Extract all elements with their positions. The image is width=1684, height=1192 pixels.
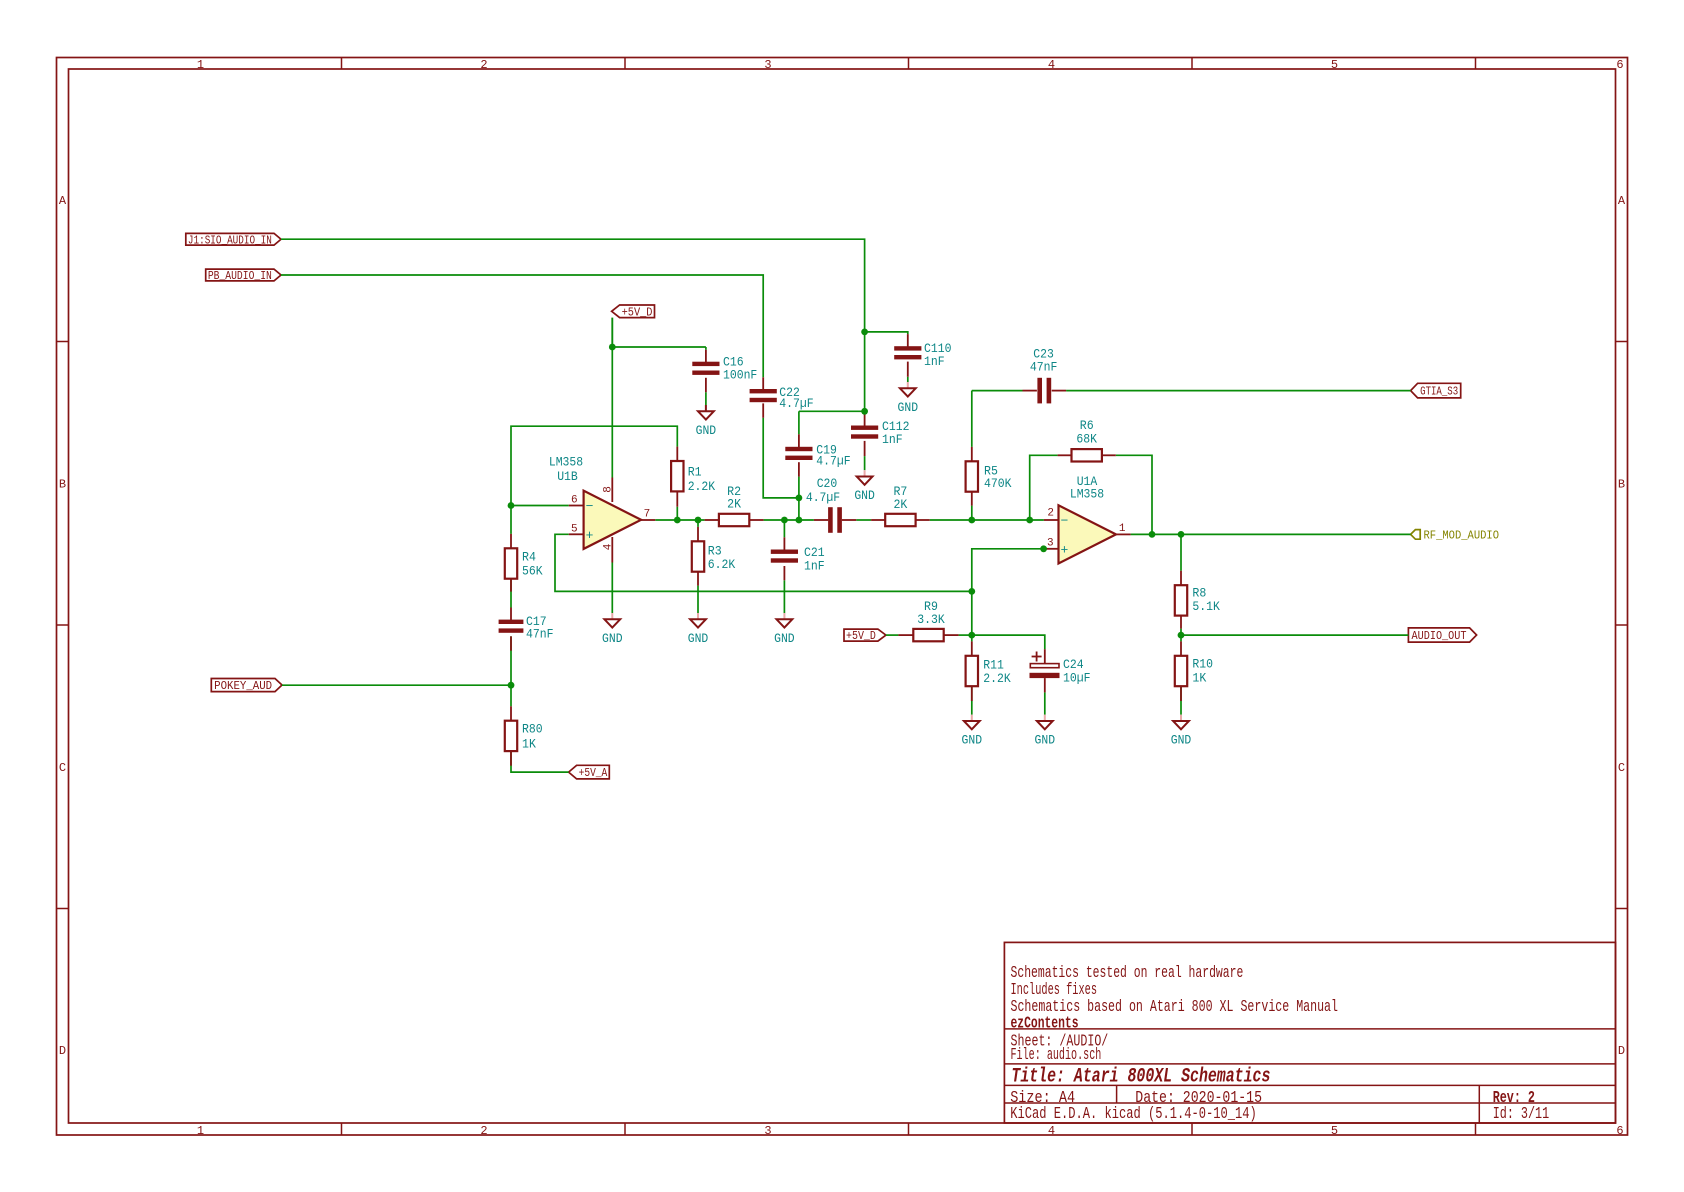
junction U1A out/R8	[1178, 531, 1185, 538]
capacitor C22	[762, 377, 764, 391]
svg-text:B: B	[59, 477, 66, 491]
wire C19 vertical	[798, 411, 800, 434]
svg-text:5: 5	[1331, 58, 1338, 72]
svg-text:Includes fixes: Includes fixes	[1011, 981, 1098, 1000]
resistor R11	[971, 641, 973, 655]
svg-text:2: 2	[480, 58, 487, 72]
svg-text:GND: GND	[854, 488, 875, 503]
svg-text:1nF: 1nF	[882, 432, 903, 447]
svg-text:470K: 470K	[984, 476, 1012, 491]
svg-text:1K: 1K	[522, 736, 536, 751]
capacitor C112	[864, 414, 866, 428]
svg-text:Id: 3/11: Id: 3/11	[1493, 1105, 1550, 1124]
svg-text:2K: 2K	[893, 497, 907, 512]
svg-text:B: B	[1618, 477, 1625, 491]
svg-text:1: 1	[197, 1124, 204, 1138]
hierarchical label GTIA_S3	[1411, 383, 1461, 398]
wire C24 branch	[972, 635, 1045, 649]
wire R5 vertical	[971, 391, 973, 447]
wire U1B pin4 to GND	[611, 563, 613, 614]
ground at R10	[1180, 715, 1182, 721]
junction C19/output	[796, 517, 803, 524]
wire U1B pin6 node	[511, 505, 569, 507]
svg-text:100nF: 100nF	[723, 368, 757, 383]
svg-text:6: 6	[571, 495, 578, 507]
wire AUDIO_OUT	[1181, 634, 1408, 636]
wire C17 to POKEY node	[510, 636, 512, 706]
resistor R2	[705, 519, 719, 521]
resistor R7	[871, 519, 885, 521]
junction +5V_D/C16 node	[609, 344, 616, 351]
resistor R3	[697, 527, 699, 541]
wire +5V_D to C16 and U1B pin8	[612, 346, 706, 348]
capacitor C17	[510, 608, 512, 622]
svg-text:J1:SIO_AUDIO_IN: J1:SIO_AUDIO_IN	[188, 234, 272, 247]
svg-text:3: 3	[1047, 537, 1054, 549]
svg-text:LM358: LM358	[549, 455, 583, 470]
wire U1B output rail	[655, 519, 704, 521]
wire R11 stem	[971, 635, 973, 641]
svg-text:5.1K: 5.1K	[1192, 599, 1220, 614]
ground at U1B pin 4	[611, 613, 613, 619]
hierarchical label AUDIO_OUT	[1408, 628, 1476, 642]
svg-text:4.7µF: 4.7µF	[816, 454, 850, 469]
svg-text:1nF: 1nF	[924, 354, 945, 369]
op-amp U1A	[1044, 519, 1059, 521]
svg-text:10µF: 10µF	[1063, 671, 1091, 686]
junction U1B pin6 node	[508, 502, 515, 509]
junction C19/C22 node	[796, 495, 803, 502]
wire +5V_D to R9	[886, 634, 899, 636]
svg-text:56K: 56K	[522, 563, 543, 578]
svg-text:−: −	[1060, 514, 1068, 529]
hierarchical label J1:SIO_AUDIO_IN	[186, 233, 281, 245]
svg-text:4: 4	[603, 543, 615, 550]
svg-text:5: 5	[1331, 1124, 1338, 1138]
svg-text:D: D	[1618, 1044, 1625, 1058]
svg-text:ezContents: ezContents	[1011, 1015, 1079, 1034]
resistor R8	[1180, 571, 1182, 585]
ground at R11	[971, 715, 973, 721]
resistor R80	[510, 706, 512, 720]
wire C110 branch	[865, 332, 908, 334]
svg-text:2.2K: 2.2K	[688, 479, 716, 494]
resistor R9	[898, 634, 912, 636]
wire net SIO_AUDIO_IN	[281, 239, 865, 411]
junction U1A out/R6	[1149, 531, 1156, 538]
wire R10 stem	[1180, 635, 1182, 641]
svg-text:R80: R80	[522, 722, 543, 737]
capacitor C21	[783, 537, 785, 551]
resistor R4	[510, 534, 512, 548]
capacitor C24 polarized	[1044, 649, 1046, 663]
svg-text:−: −	[586, 499, 594, 514]
wire C22 bottom to C19 node	[763, 418, 799, 498]
power +5V_D (bottom)	[844, 629, 886, 641]
junction SIO/C112/C19 node	[861, 408, 868, 415]
svg-text:PB_AUDIO_IN: PB_AUDIO_IN	[208, 270, 272, 283]
svg-text:File: audio.sch: File: audio.sch	[1011, 1046, 1102, 1065]
wire U1B pin5 to long rail	[555, 534, 972, 591]
wire U1A pin3 net	[972, 549, 1044, 635]
svg-text:A: A	[59, 194, 67, 208]
svg-text:GND: GND	[1035, 733, 1056, 748]
svg-text:+: +	[1060, 542, 1068, 557]
svg-text:C: C	[1618, 761, 1625, 775]
capacitor C19	[798, 434, 800, 449]
capacitor C20	[814, 519, 828, 521]
svg-text:GND: GND	[1171, 733, 1192, 748]
hierarchical label POKEY_AUD	[211, 679, 282, 692]
svg-text:C20: C20	[817, 476, 838, 491]
svg-text:5: 5	[571, 524, 578, 536]
svg-text:+5V_D: +5V_D	[846, 630, 876, 643]
capacitor C110	[907, 334, 909, 348]
capacitor C23	[1023, 390, 1037, 392]
wire R6 feedback loop	[1030, 455, 1058, 520]
wire R1 bottom to output	[676, 507, 678, 520]
wire GTIA_S3 net through C23	[972, 390, 1023, 392]
svg-text:GND: GND	[962, 733, 983, 748]
svg-text:+5V_D: +5V_D	[622, 306, 653, 319]
svg-text:RF_MOD_AUDIO: RF_MOD_AUDIO	[1424, 529, 1500, 542]
svg-text:68K: 68K	[1076, 432, 1097, 447]
svg-text:+5V_A: +5V_A	[579, 767, 608, 780]
wire C16 leads	[705, 347, 707, 350]
ground at C110	[907, 382, 909, 388]
ground at C16	[705, 405, 707, 411]
svg-text:6: 6	[1616, 58, 1623, 72]
svg-text:GND: GND	[696, 423, 717, 438]
power +5V_A	[569, 765, 610, 779]
junction pin5 rail/pin3	[968, 588, 975, 595]
svg-text:7: 7	[644, 509, 651, 521]
svg-text:47nF: 47nF	[1030, 359, 1058, 374]
title block	[1004, 942, 1615, 1123]
wire POKEY_AUD	[282, 684, 511, 686]
junction R8/R10/AUDIO_OUT	[1178, 632, 1185, 639]
svg-text:4.7µF: 4.7µF	[806, 490, 840, 505]
junction U1A pin3	[1040, 545, 1047, 552]
svg-text:KiCad E.D.A. kicad (5.1.4-0-1: KiCad E.D.A. kicad (5.1.4-0-10_14)	[1010, 1105, 1256, 1124]
resistor R5	[971, 447, 973, 461]
svg-text:8: 8	[603, 486, 615, 493]
junction R3/output	[695, 517, 702, 524]
svg-text:Title: Atari 800XL Schematics: Title: Atari 800XL Schematics	[1011, 1066, 1270, 1089]
svg-text:GND: GND	[602, 631, 623, 646]
svg-text:3: 3	[764, 1124, 771, 1138]
hierarchical label RF_MOD_AUDIO	[1411, 530, 1421, 540]
svg-text:GTIA_S3: GTIA_S3	[1420, 386, 1458, 399]
wire U1B feedback to R1	[511, 426, 677, 505]
svg-text:+: +	[586, 528, 594, 543]
capacitor C16	[705, 350, 707, 364]
resistor R1	[676, 447, 678, 461]
svg-text:GND: GND	[774, 631, 795, 646]
resistor R6	[1058, 454, 1072, 456]
hierarchical label PB_AUDIO_IN	[206, 269, 281, 281]
svg-text:2K: 2K	[727, 497, 741, 512]
wire R80 to +5V_A	[511, 751, 569, 772]
junction +5V bias node	[968, 632, 975, 639]
ground at C24	[1044, 715, 1046, 721]
junction POKEY/R80/C17	[508, 682, 515, 689]
svg-text:U1B: U1B	[557, 469, 578, 484]
svg-text:2: 2	[1047, 508, 1054, 520]
wire U1A output to RF_MOD_AUDIO	[1131, 533, 1411, 535]
svg-text:D: D	[59, 1044, 66, 1058]
wire R3 stem	[697, 520, 699, 527]
svg-text:LM358: LM358	[1070, 486, 1104, 501]
svg-text:2: 2	[480, 1124, 487, 1138]
svg-text:1: 1	[1119, 523, 1126, 535]
junction C21/output	[781, 517, 788, 524]
svg-text:R1: R1	[688, 465, 702, 480]
wire R8 branch	[1180, 534, 1182, 570]
svg-text:A: A	[1618, 194, 1626, 208]
svg-text:4: 4	[1048, 58, 1055, 72]
svg-text:POKEY_AUD: POKEY_AUD	[214, 680, 272, 693]
junction R6/U1A pin2	[1026, 517, 1033, 524]
wire C21 stem	[783, 520, 785, 537]
svg-text:3: 3	[764, 58, 771, 72]
svg-text:47nF: 47nF	[526, 627, 554, 642]
svg-text:1K: 1K	[1192, 670, 1206, 685]
op-amp U1B	[611, 478, 613, 503]
wire R4 branch	[510, 506, 512, 534]
power +5V_D (top)	[612, 305, 655, 318]
svg-text:AUDIO_OUT: AUDIO_OUT	[1412, 630, 1467, 643]
svg-text:2.2K: 2.2K	[983, 671, 1011, 686]
resistor R10	[1180, 641, 1182, 655]
ground at C21	[783, 613, 785, 619]
wire net PB_AUDIO_IN to C22	[281, 275, 763, 377]
junction R1/output	[674, 517, 681, 524]
svg-text:C: C	[59, 761, 66, 775]
svg-text:4.7µF: 4.7µF	[779, 396, 813, 411]
junction SIO/C110 node	[861, 329, 868, 336]
svg-text:1nF: 1nF	[804, 559, 825, 574]
wire C112 leads	[864, 411, 866, 413]
wire R9 to node	[959, 634, 972, 636]
svg-text:6.2K: 6.2K	[708, 557, 736, 572]
svg-text:3.3K: 3.3K	[917, 612, 945, 627]
svg-text:6: 6	[1616, 1124, 1623, 1138]
svg-text:GND: GND	[688, 631, 709, 646]
svg-text:GND: GND	[898, 400, 919, 415]
svg-text:4: 4	[1048, 1124, 1055, 1138]
junction R5/output	[968, 517, 975, 524]
ground at C112	[864, 470, 866, 476]
ground at R3	[697, 613, 699, 619]
svg-text:1: 1	[197, 58, 204, 72]
